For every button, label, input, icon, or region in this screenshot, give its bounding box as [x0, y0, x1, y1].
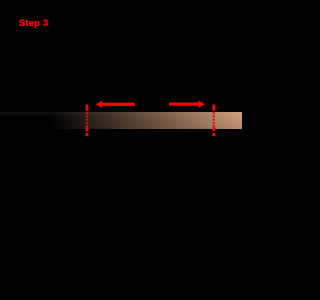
right arrow (pointing right): [169, 100, 205, 108]
left arrow (pointing left): [96, 100, 135, 108]
bar vertical shading: [0, 112, 242, 129]
left dashed line: [86, 105, 89, 137]
right dashed line: [212, 105, 215, 137]
gradient bar: [0, 112, 242, 129]
step label "Step 3": [19, 18, 48, 28]
